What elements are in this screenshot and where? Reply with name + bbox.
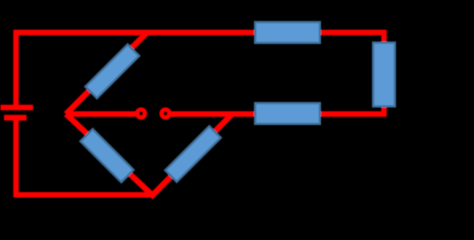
wire: battery top lead + top rail + right down-stub [16, 33, 384, 106]
resistor R1 (upper-left diagonal) [85, 44, 139, 98]
wire: bridge diagonals node A to bottom node to node B [66, 114, 232, 195]
resistor R2 (lower-left diagonal) [80, 129, 133, 182]
resistor R3 (lower-right diagonal) [165, 126, 221, 182]
battery V1 long plate [1, 105, 34, 111]
terminal 2 (open circle) [162, 110, 170, 118]
wire: terminal 2 to middle rail and up-stub to R5 [171, 107, 384, 114]
wire: node A to terminal 1 [66, 111, 136, 116]
resistor R4 (top horizontal) [255, 22, 320, 43]
battery V1 short plate [4, 115, 27, 121]
resistor R6 (middle horizontal) [255, 103, 320, 124]
wire: bridge diagonal node A to top node [66, 33, 147, 115]
terminal 1 (open circle) [137, 110, 145, 118]
wire: battery bottom lead + bottom rail [16, 120, 154, 195]
resistor R5 (right vertical) [373, 43, 395, 107]
